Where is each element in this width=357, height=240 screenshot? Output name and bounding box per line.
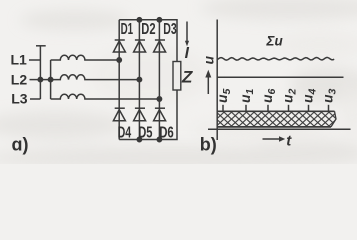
inductor choke row L1 bbox=[51, 55, 120, 60]
tick u4 bbox=[308, 105, 310, 112]
svg-text:L1: L1 bbox=[11, 52, 28, 68]
wire L3 lead bbox=[30, 98, 40, 100]
svg-text:D6: D6 bbox=[159, 124, 174, 141]
diode D3 bbox=[154, 40, 166, 52]
svg-text:D2: D2 bbox=[141, 21, 155, 38]
load impedance Z rectangle bbox=[173, 62, 181, 91]
curve sum-voltage ripple wave bbox=[217, 58, 334, 61]
svg-text:D1: D1 bbox=[121, 21, 134, 38]
svg-text:D4: D4 bbox=[118, 124, 132, 141]
svg-text:ɑ): ɑ) bbox=[12, 134, 29, 154]
node T terminal bar bbox=[36, 45, 46, 47]
diode D5 bbox=[134, 108, 146, 121]
svg-text:b): b) bbox=[200, 135, 217, 155]
tick u5 bbox=[222, 105, 224, 112]
wire bridge column 3 bbox=[158, 20, 160, 140]
wire supply bus vertical bbox=[39, 46, 41, 99]
wire L1 lead bbox=[29, 59, 40, 61]
wire bottom rail (-) bbox=[119, 90, 177, 140]
wire L2 link to star bus bbox=[40, 79, 50, 81]
node dot top rail col2 bbox=[137, 18, 141, 22]
node dot top rail col3 bbox=[157, 18, 161, 22]
svg-text:L3: L3 bbox=[11, 91, 28, 107]
hatched ripple band bbox=[217, 111, 337, 127]
svg-text:L2: L2 bbox=[11, 71, 28, 87]
inductor choke row L3 bbox=[51, 94, 160, 99]
tick u6 bbox=[267, 105, 269, 112]
svg-text:D3: D3 bbox=[163, 21, 177, 38]
svg-text:D5: D5 bbox=[138, 124, 153, 141]
axis u vertical (diagram b) bbox=[216, 20, 218, 141]
wire mean-value reference line of sum voltage bbox=[217, 76, 344, 78]
node junction dot L2 on supply bus bbox=[38, 77, 42, 81]
axis t horizontal (diagram b) bbox=[208, 128, 351, 130]
node dot phase L1 col1 bbox=[117, 58, 121, 62]
diode D1 bbox=[113, 40, 125, 52]
svg-text:I: I bbox=[185, 45, 190, 62]
wire L2 lead bbox=[30, 79, 41, 81]
tick u3 bbox=[328, 105, 330, 112]
svg-text:Σu: Σu bbox=[266, 34, 284, 49]
node junction dot L2 on star bus bbox=[48, 77, 52, 81]
node dot bottom rail col3 bbox=[157, 137, 161, 141]
wire bridge column 1 bbox=[118, 20, 120, 140]
node dot bottom rail col2 bbox=[137, 137, 141, 141]
wire top rail (+) bbox=[119, 20, 177, 62]
arrow current I bbox=[185, 22, 189, 47]
diode D4 bbox=[113, 108, 125, 121]
svg-text:Z: Z bbox=[181, 68, 193, 87]
diode D2 bbox=[134, 40, 146, 52]
svg-text:u: u bbox=[200, 55, 216, 64]
wire bridge column 2 bbox=[138, 20, 140, 140]
arrow t axis pointer bbox=[263, 136, 286, 142]
arrow u axis label pointer bbox=[205, 70, 211, 94]
tick u1 bbox=[245, 105, 247, 112]
node dot phase L3 col3 bbox=[157, 97, 161, 101]
node dot phase L2 col2 bbox=[137, 77, 141, 81]
diode D6 bbox=[154, 108, 166, 121]
tick u2 bbox=[288, 105, 290, 112]
inductor choke row L2 bbox=[51, 75, 140, 80]
wire star-point bus vertical bbox=[50, 60, 52, 99]
